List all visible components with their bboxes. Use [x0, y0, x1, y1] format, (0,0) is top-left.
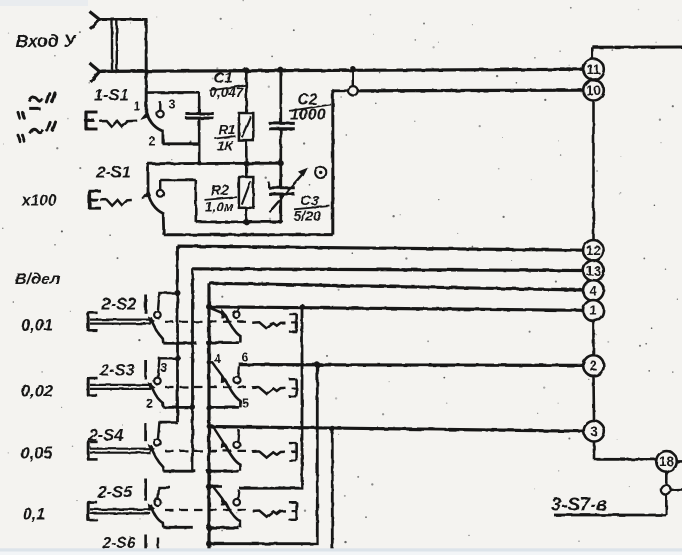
svg-text:0,047: 0,047 — [210, 85, 245, 100]
svg-text:18: 18 — [659, 454, 675, 469]
svg-text:2: 2 — [149, 135, 156, 149]
svg-text:2: 2 — [146, 397, 153, 411]
svg-text:1К: 1К — [217, 139, 235, 154]
svg-text:2-S1: 2-S1 — [95, 164, 131, 182]
svg-text:4: 4 — [214, 352, 221, 366]
svg-text:1: 1 — [134, 100, 141, 114]
svg-text:0,1: 0,1 — [23, 506, 46, 524]
svg-text:1: 1 — [590, 303, 598, 318]
svg-text:1,0м: 1,0м — [205, 200, 234, 215]
svg-text:5/20: 5/20 — [294, 208, 321, 224]
svg-text:3-S7-в: 3-S7-в — [551, 494, 607, 515]
svg-text:12: 12 — [586, 243, 601, 258]
svg-text:1-S1: 1-S1 — [94, 87, 129, 105]
svg-text:0,02: 0,02 — [21, 383, 53, 401]
svg-text:х100: х100 — [21, 193, 57, 210]
svg-text:13: 13 — [586, 263, 602, 278]
svg-text:3: 3 — [161, 361, 168, 375]
svg-text:4: 4 — [590, 283, 598, 298]
svg-text:В/дел: В/дел — [15, 271, 60, 288]
svg-text:Вход У: Вход У — [16, 31, 77, 51]
svg-text:2-S3: 2-S3 — [99, 362, 135, 380]
svg-text:11: 11 — [586, 62, 601, 77]
svg-text:3: 3 — [169, 98, 176, 112]
svg-text:R1: R1 — [219, 123, 236, 138]
svg-text:3: 3 — [590, 424, 598, 439]
svg-text:10: 10 — [586, 83, 601, 98]
svg-text:R2: R2 — [211, 183, 230, 199]
svg-text:5: 5 — [242, 397, 249, 411]
svg-text:6: 6 — [242, 351, 249, 365]
svg-text:2-S5: 2-S5 — [97, 484, 134, 502]
svg-text:2-S2: 2-S2 — [101, 296, 137, 314]
svg-text:2: 2 — [590, 358, 598, 373]
svg-text:0,01: 0,01 — [21, 317, 53, 335]
svg-text:0,05: 0,05 — [21, 445, 54, 463]
svg-text:1000: 1000 — [290, 107, 326, 124]
